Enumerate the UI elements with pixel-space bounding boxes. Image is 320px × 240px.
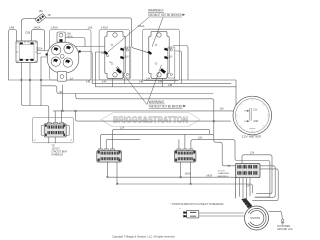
svg-text:GROUND LUG: GROUND LUG [277,229,293,231]
wire receptacle2 right verticals [173,46,188,84]
warning callout 2 [118,65,186,109]
wire J2 bottom drops [181,162,191,184]
R2 ground screw [160,68,166,74]
wire vertical x95.6 [96,52,105,87]
svg-text:12A: 12A [250,152,255,155]
warning 1 leader lines [108,18,149,53]
R2 terminal blobs [147,51,152,55]
svg-text:Copyright © Briggs & Stratton,: Copyright © Briggs & Stratton, LLC. All … [112,234,175,238]
duplex receptacle R2 [147,31,172,78]
svg-text:1A6: 1A6 [88,25,93,29]
wire mid line C stub [106,139,140,149]
wire relay right to twistlock upper [35,50,49,52]
svg-text:14A: 14A [102,81,107,84]
wire J3 bottom stubs [49,137,55,143]
wire twistlock tab right [65,38,85,47]
connector J3 (bottom-left, panel harness) [32,118,73,157]
wire J4 bottom drops to bundle [236,178,250,201]
wire meter lower to mid junction [213,121,215,134]
svg-text:C1B: C1B [25,31,30,35]
wire bus 5 low [76,94,214,122]
svg-text:STATOR: STATOR [250,217,260,220]
wire brush to stator a [199,212,244,214]
svg-text:12V METER: 12V METER [242,135,262,139]
wire twistlock bottom down [62,85,64,111]
svg-text:14GA: 14GA [101,26,108,30]
svg-text:1AB: 1AB [101,52,106,55]
svg-text:HARNESS: HARNESS [218,175,229,178]
wire bus 3 [96,86,236,88]
bottom tab [57,71,66,81]
svg-text:12A: 12A [246,185,251,188]
wire stator to ground lug [269,211,283,219]
svg-text:1B: 1B [48,14,51,17]
svg-text:14A: 14A [158,81,163,84]
wire bus 1 under components [9,79,237,81]
duplex receptacle R1 outer box [99,30,130,80]
svg-text:14B: 14B [168,84,173,87]
svg-text:TAB MUST NOT BE BROKEN: TAB MUST NOT BE BROKEN [148,13,182,17]
svg-text:14GA: 14GA [206,174,213,177]
warning 2 leader lines [118,65,162,105]
wire relay right to twistlock lower [35,54,49,58]
svg-text:12A: 12A [220,108,225,111]
twistlock receptacle outer box [50,30,92,80]
wire twistlock right to receptacle1 [74,46,105,48]
wire right bus corner down [235,80,237,111]
wire relay to breaker [21,18,36,41]
connector J4 (12V charging, right) [218,152,261,178]
brush holder assembly [171,203,224,218]
svg-text:WARNING!: WARNING! [148,9,164,13]
svg-text:1AB: 1AB [9,25,14,29]
svg-text:12GA: 12GA [36,47,43,50]
duplex receptacle R1 [101,31,129,78]
svg-text:CUSTOMER: CUSTOMER [277,226,290,228]
svg-text:CHARGING: CHARGING [218,172,230,175]
wire bus 2 [92,82,231,84]
svg-text:14B: 14B [139,81,144,84]
wire J1 bottom to stator bundle run2 [117,162,253,193]
svg-text:1N: 1N [169,56,172,59]
svg-text:* POSITIVE BRUSH IS CLOSEST TO: * POSITIVE BRUSH IS CLOSEST TO BEARING [171,203,224,206]
wire J4 right wrap 3 [253,169,279,201]
circuit breaker CB1 top-left [35,10,51,24]
twistlock receptacle L14-30R [45,32,81,81]
wire oval-left vertical to bus [40,57,42,106]
svg-text:GND: GND [253,121,258,123]
svg-text:G: G [110,61,112,64]
wire receptacle1 bottom drops [112,79,124,87]
customer ground lug [277,219,293,231]
wire twistlock right down [74,52,92,84]
svg-text:14B: 14B [86,81,91,84]
wire relay bottom right down [29,63,31,106]
wire mid line A to J1 [112,129,209,149]
wire J3 to meter line [55,111,61,123]
svg-text:WARNING!: WARNING! [149,100,165,104]
wire bus 4 low left [41,86,213,94]
stator [241,198,268,230]
wire J4 right wrap 2 [255,166,275,198]
wire brush to stator b [199,215,244,217]
R2 side bracket [168,47,175,78]
svg-text:12V: 12V [253,110,258,112]
svg-text:1A: 1A [70,77,73,80]
watermark Briggs & Stratton emblem [101,113,200,127]
svg-text:12A: 12A [120,127,125,130]
duplex receptacle R2 outer box [143,29,180,80]
svg-text:14A: 14A [59,91,64,94]
svg-text:14GA: 14GA [34,26,41,30]
wire mid line D from J2 wrap to bundle [191,140,270,197]
top tab [57,32,65,42]
svg-text:HARNESS: HARNESS [52,153,64,156]
R1 terminal blobs [103,51,108,55]
terminal circles [51,44,73,67]
R1 side bracket [124,47,131,78]
svg-text:BRIGGS&STRATTON: BRIGGS&STRATTON [113,115,188,125]
R1 ground screw [116,68,122,74]
wire J1 bottom to stator bundle run1 [107,162,235,198]
svg-text:12A: 12A [198,137,203,140]
connector J2 (center-right) [174,149,196,162]
wire J2 top stubs [179,134,185,149]
wire meter feed upper [53,110,244,112]
svg-text:15A: 15A [39,10,44,13]
svg-text:14GA: 14GA [51,25,58,29]
hour meter M1 [233,96,272,138]
svg-text:14A: 14A [146,77,151,80]
wire loop feeder left (bus to relay) [9,30,17,81]
wire meter feed lower [76,111,231,121]
body [47,42,79,73]
wire mid line B to J1 and J4 left [101,134,236,166]
wire relay bottom left to J3 [21,63,49,122]
junction marks [20,79,230,185]
wire receptacle2 bottom drops [163,79,175,87]
svg-text:1N: 1N [125,56,128,59]
relay module K1 (square, left) [16,31,37,63]
warning callout 1 [108,9,186,53]
stator wire bundle hatched band [241,198,252,209]
svg-text:14GA: 14GA [67,35,74,38]
svg-text:TAB MUST NOT BE BROKEN: TAB MUST NOT BE BROKEN [149,104,183,108]
side screws [45,53,47,55]
wire loop relay top right [32,30,45,51]
wire J4 top wrap [242,155,272,194]
svg-text:14GA: 14GA [185,172,192,175]
connector J1 (center-left) [97,149,122,162]
wire breaker to receptacle panel [46,18,150,53]
